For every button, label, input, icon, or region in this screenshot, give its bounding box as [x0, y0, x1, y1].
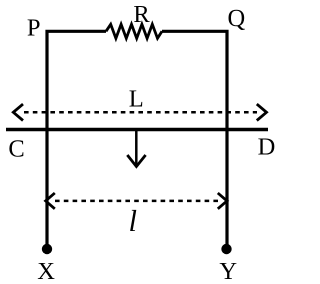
svg-text:Y: Y — [219, 258, 237, 284]
svg-text:l: l — [129, 204, 137, 238]
svg-text:P: P — [27, 14, 41, 41]
terminal dot X — [42, 244, 52, 254]
wire left rail + top wire segment — [47, 31, 106, 246]
wire top right segment + right rail — [162, 31, 227, 246]
svg-text:C: C — [8, 136, 24, 163]
rod CD — [6, 128, 268, 132]
resistor R — [106, 24, 162, 38]
velocity arrow (down) — [127, 131, 145, 167]
svg-text:L: L — [129, 86, 144, 113]
terminal dot Y — [221, 244, 231, 254]
svg-text:D: D — [258, 134, 276, 161]
svg-text:X: X — [37, 258, 55, 284]
dashed arrow L (double-headed) — [13, 104, 266, 120]
dashed arrow l (double-headed between rails) — [46, 193, 227, 209]
svg-text:R: R — [133, 1, 150, 28]
svg-text:Q: Q — [227, 5, 245, 32]
